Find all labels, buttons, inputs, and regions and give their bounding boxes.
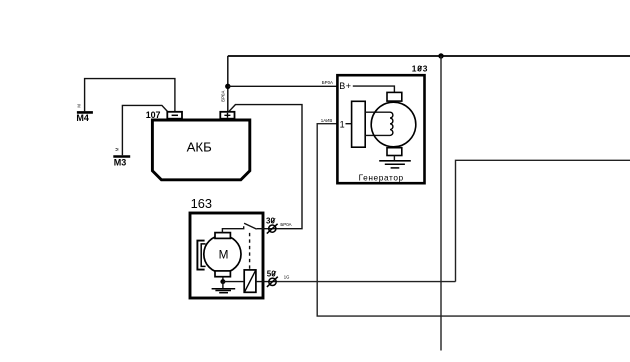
generator rotor circle — [371, 102, 416, 147]
svg-text:M: M — [219, 248, 229, 262]
battery plus terminal — [220, 112, 234, 119]
wire switch to terminal 30 — [257, 228, 276, 230]
svg-text:50: 50 — [267, 270, 276, 279]
wire top power rail — [228, 55, 630, 57]
switch blade — [244, 223, 257, 229]
generator top brush — [387, 92, 402, 101]
wire M4 net to battery minus — [85, 79, 175, 112]
svg-text:БР0А: БР0А — [280, 222, 291, 227]
svg-text:М4: М4 — [76, 113, 89, 123]
wire solenoid to terminal 50 — [256, 281, 276, 283]
generator box — [337, 75, 424, 183]
svg-text:30: 30 — [266, 217, 275, 226]
node motor ground junction — [220, 279, 225, 284]
ground generator — [379, 160, 411, 162]
svg-text:Генератор: Генератор — [359, 172, 404, 182]
wire regulator to field coil top — [365, 111, 390, 113]
svg-text:БР0А: БР0А — [221, 91, 226, 102]
starter field bracket outer — [197, 241, 204, 270]
wire node to ground — [222, 282, 224, 289]
wire second rail right — [456, 160, 630, 281]
svg-text:М3: М3 — [114, 157, 127, 167]
node junction dot on top rail — [438, 53, 443, 58]
field coil — [390, 112, 393, 135]
wire node to solenoid — [223, 281, 244, 283]
svg-text:163: 163 — [191, 196, 212, 211]
starter motor circle — [204, 236, 241, 273]
wire pin1 to regulator — [346, 123, 352, 125]
node junction dot at battery riser / B+ branch — [225, 84, 230, 89]
generator bottom brush — [387, 148, 402, 156]
starter top brush — [215, 233, 230, 239]
wire generator terminal 1 net — [317, 124, 630, 316]
svg-text:М: М — [114, 147, 119, 151]
wire top brush to switch — [222, 226, 243, 232]
wire M3 net to battery minus — [122, 105, 167, 155]
generator regulator block — [352, 101, 366, 147]
wire bottom brush to node — [222, 277, 224, 282]
ground starter — [212, 288, 236, 290]
svg-text:1: 1 — [340, 120, 345, 130]
dashed link switch to solenoid — [249, 233, 251, 270]
svg-text:БР0А: БР0А — [322, 80, 333, 85]
wire 50 net from starter terminal — [276, 281, 456, 283]
solenoid coil — [244, 270, 256, 292]
ground M3 — [113, 155, 130, 158]
ground M4 — [77, 111, 93, 114]
wire main vertical drop from top rail — [440, 56, 442, 351]
svg-text:B+: B+ — [339, 81, 351, 91]
wire bottom brush to ground — [393, 156, 395, 161]
svg-text:1G: 1G — [284, 275, 290, 280]
wire 30 net from starter terminal to battery plus — [229, 105, 302, 229]
wire battery plus riser — [227, 56, 229, 112]
wire B+ to top brush — [353, 86, 395, 92]
svg-text:АКБ: АКБ — [187, 140, 212, 155]
battery minus terminal — [167, 112, 182, 119]
wire regulator to field coil bottom — [365, 134, 390, 136]
starter field bracket inner — [201, 244, 205, 267]
battery АКБ body — [152, 120, 249, 180]
svg-text:М: М — [77, 104, 82, 108]
svg-text:1АИВ: 1АИВ — [321, 118, 333, 123]
starter box — [190, 213, 263, 298]
wire B+ feed to generator — [228, 85, 337, 87]
starter bottom brush — [215, 271, 230, 277]
